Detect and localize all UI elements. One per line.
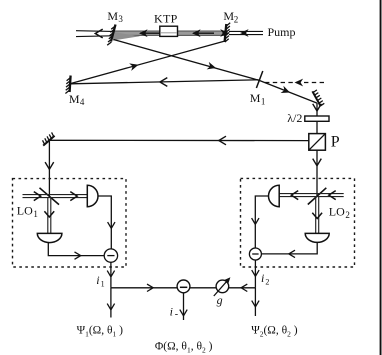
svg-text:2: 2 <box>234 14 239 24</box>
wire S3 down (current i-) <box>180 293 187 320</box>
pump beam <box>220 29 263 37</box>
wire P left to steering mirror (LO1 arm) <box>49 136 308 145</box>
wire S2 down to junction (current i2) <box>252 260 259 288</box>
svg-text:-: - <box>175 309 178 320</box>
svg-text:KTP: KTP <box>154 11 178 25</box>
circulating beam arrow (left, M2 side) <box>192 29 214 37</box>
half-wave plate (lambda/2) <box>305 116 329 121</box>
wire i2 output down <box>252 288 259 316</box>
intracavity beam (gray band M3-M2) <box>112 31 226 41</box>
beamsplitter BS2 <box>308 188 327 205</box>
LO2 dotted box <box>241 178 355 267</box>
wire cavity diagonal M4 to M2 <box>71 41 225 84</box>
svg-text:3: 3 <box>118 14 123 24</box>
wire P down to BS2 <box>313 150 322 196</box>
svg-text:LO: LO <box>329 205 345 219</box>
mirror M1 (output coupler tick) <box>256 71 262 88</box>
LO1 input beam (double line) <box>23 192 88 201</box>
svg-text:1: 1 <box>101 280 105 289</box>
polarizer P <box>309 134 326 151</box>
wire D2b to subtractor S2 <box>261 242 317 257</box>
gain element g (variable attenuator) <box>214 275 233 296</box>
svg-text:i: i <box>170 305 173 319</box>
svg-text:2: 2 <box>345 210 350 220</box>
svg-text:Ψ2(Ω, θ2 ): Ψ2(Ω, θ2 ) <box>251 325 298 339</box>
detector D1b (below BS1) <box>37 233 62 242</box>
svg-text:2: 2 <box>265 278 269 287</box>
wire S1 down to junction (current i1) <box>107 262 114 288</box>
svg-text:M: M <box>223 9 234 23</box>
svg-text:1: 1 <box>261 97 266 107</box>
svg-text:4: 4 <box>80 97 85 107</box>
detector D2a (left of BS2) <box>269 185 280 206</box>
detector D2b (below BS2) <box>305 233 329 242</box>
svg-text:g: g <box>217 293 223 307</box>
wire D1a to subtractor S1 <box>98 196 115 249</box>
svg-text:LO: LO <box>17 204 33 218</box>
wire junction i2 to gain g <box>229 284 256 291</box>
mirror M2 <box>225 23 231 42</box>
wire cavity diagonal M3 to M1 <box>114 40 260 81</box>
wire i1 output down <box>107 288 114 318</box>
BS2 down beam (double line) <box>312 197 322 233</box>
svg-text:Ψ1(Ω, θ1 ): Ψ1(Ω, θ1 ) <box>77 325 124 339</box>
steering mirror (left, above LO1) <box>43 132 55 145</box>
page column rule (right edge) <box>380 0 382 355</box>
wire vacuum input (dashed) at M1 <box>265 79 325 87</box>
subtractor S1 <box>104 249 117 262</box>
svg-text:P: P <box>331 133 340 150</box>
wire output beam M1 to steering mirror <box>260 81 317 104</box>
output beam left of M3 <box>76 29 112 38</box>
wire junction i1 to subtractor S3 <box>111 284 177 291</box>
detector D1a (right of BS1) <box>87 185 98 206</box>
wire mirror down to BS1 <box>45 140 54 196</box>
svg-text:M: M <box>250 91 261 105</box>
LO2 input beam (double line) <box>279 191 344 200</box>
LO1 dotted box <box>13 179 127 267</box>
svg-text:M: M <box>107 9 118 23</box>
circulating beam arrow (left, M3 side) <box>139 29 160 37</box>
svg-text:i: i <box>96 273 99 287</box>
svg-text:λ/2: λ/2 <box>287 111 302 125</box>
subtractor S3 <box>177 280 190 293</box>
BS1 down beam (double line) <box>44 197 54 233</box>
subtractor S2 <box>249 248 261 260</box>
steering mirror (top right) <box>312 90 324 106</box>
svg-text:Pump: Pump <box>268 25 296 39</box>
wire cavity bottom M1 to M4 <box>71 78 259 87</box>
KTP crystal <box>160 26 178 36</box>
wire D1b to subtractor S1 <box>48 242 104 259</box>
wire steering mirror down to P <box>313 103 322 134</box>
mirror M4 <box>65 76 70 94</box>
beamsplitter BS1 <box>40 188 60 205</box>
svg-text:i: i <box>261 271 264 285</box>
svg-text:M: M <box>69 92 80 106</box>
mirror M3 <box>107 25 115 46</box>
wire D2a to subtractor S2 <box>252 196 269 248</box>
wire g to S3 <box>190 287 216 289</box>
svg-text:1: 1 <box>33 209 38 219</box>
